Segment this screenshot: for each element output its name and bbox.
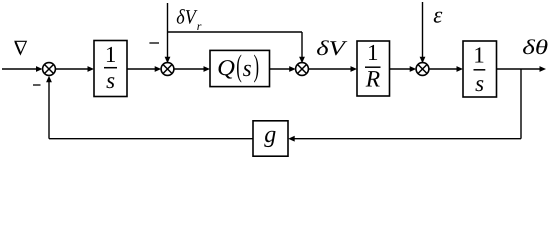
svg-text:g: g [264,122,276,148]
svg-text:ε: ε [433,3,443,28]
block 1/s (second integrator) [463,41,497,97]
svg-text:s: s [106,68,115,93]
svg-text:R: R [365,67,380,93]
wire block Q(s) to S3 [270,66,296,72]
svg-text:1: 1 [473,43,485,68]
wire input to S1 [2,66,43,72]
wire output with deltaTheta arrow [497,66,547,72]
svg-text:r: r [197,19,202,33]
block 1/s (first integrator) [94,41,127,97]
svg-text:1: 1 [105,42,117,67]
summing junction S3 [296,63,309,76]
svg-text:δθ: δθ [522,35,548,59]
svg-text:(: ( [236,48,242,83]
summing junction S4 [416,63,429,76]
wire S2 to block Q(s) [174,66,210,72]
wire epsilon vertical into S4 [420,2,426,63]
minus sign at S1 feedback input [33,84,41,86]
wire S3 to block 1/R [308,66,357,72]
svg-text:s: s [243,56,252,82]
wire S4 to block 1/s second [429,66,463,72]
wire deltaVr vertical into S2 [165,3,171,63]
wire block 1/s to S2 [127,66,161,72]
summing junction S1 [43,63,56,76]
svg-text:): ) [254,48,260,83]
wire deltaVr branch to S3 [168,32,305,63]
svg-text:1: 1 [367,40,379,65]
svg-text:δV: δV [176,7,198,29]
svg-text:s: s [475,71,484,96]
block Q(s) compensator [210,48,270,86]
svg-text:Q: Q [217,55,235,80]
wire block 1/R to S4 [390,66,417,72]
wire block g to S1 feedback [46,76,253,139]
block g feedback gain [253,121,288,156]
svg-text:δV: δV [316,36,347,60]
wire S1 to block 1/s [55,66,94,72]
minus sign at S2 top input [149,42,159,44]
summing junction S2 [161,63,174,76]
wire output branch down to feedback [288,69,521,142]
node nabla input label [15,41,26,54]
block 1/R [357,40,390,96]
